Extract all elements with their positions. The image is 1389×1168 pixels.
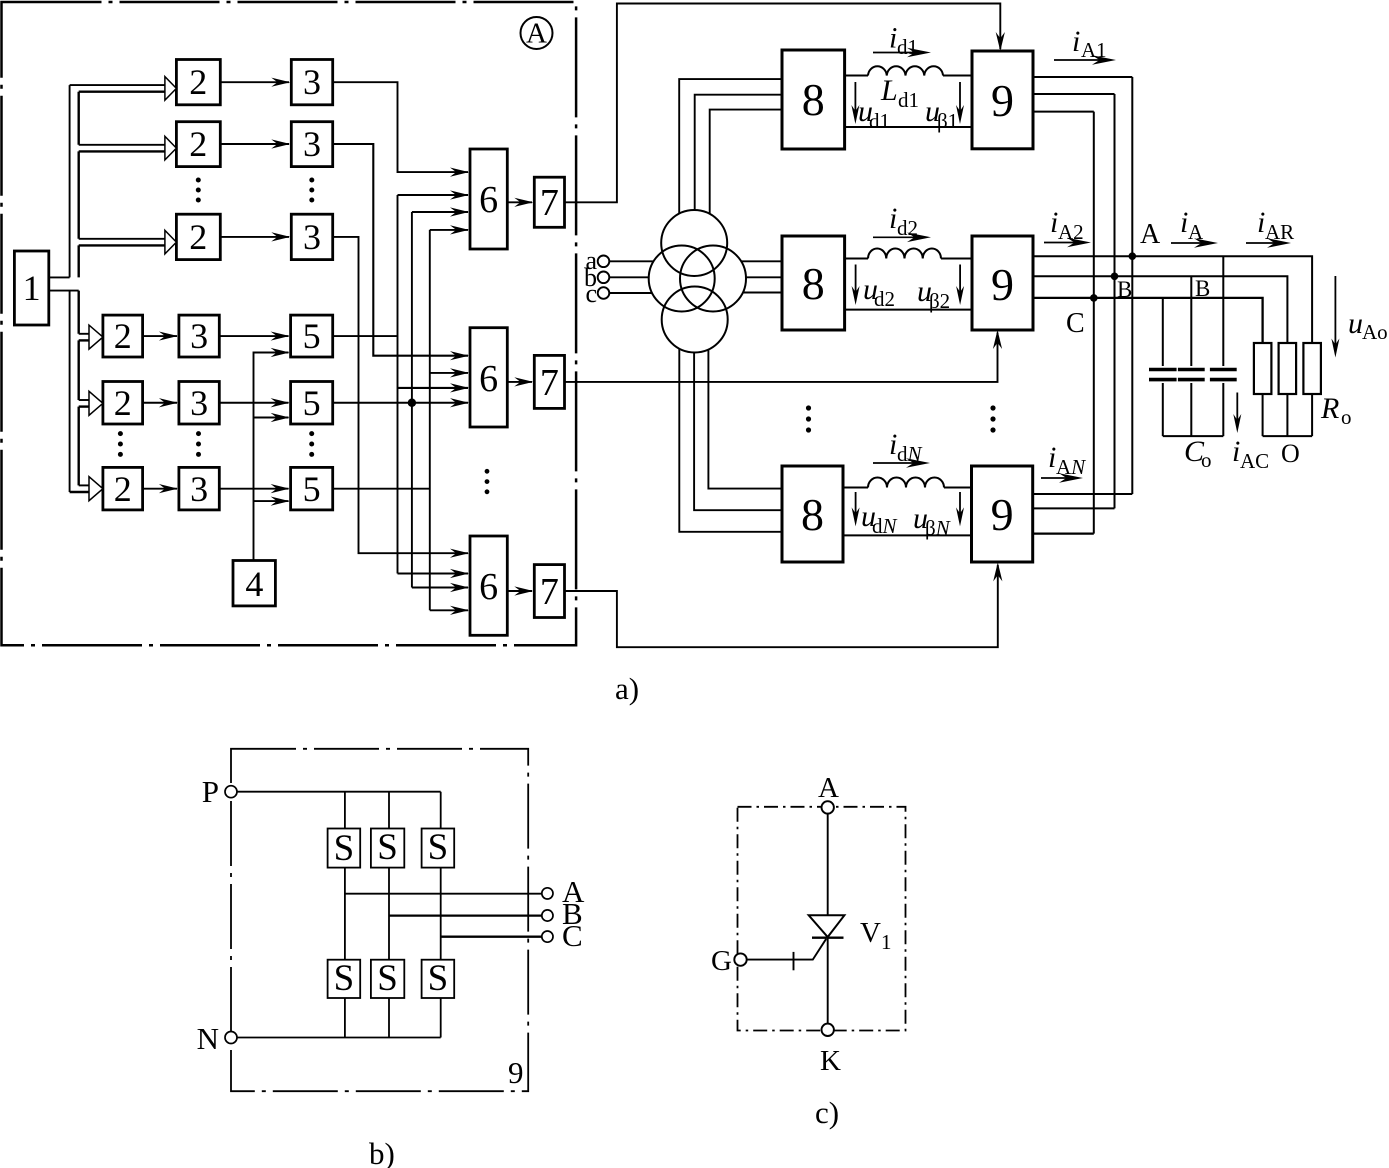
svg-text:β1: β1 <box>937 109 958 133</box>
svg-text:7: 7 <box>540 571 559 613</box>
svg-text:A: A <box>1188 220 1204 244</box>
svg-text:A: A <box>526 18 547 50</box>
svg-text:d1: d1 <box>897 35 918 59</box>
svg-text:B: B <box>1117 277 1132 302</box>
svg-text:AN: AN <box>1056 455 1086 479</box>
svg-text:3: 3 <box>303 124 321 164</box>
svg-text:5: 5 <box>303 383 321 423</box>
svg-text:A: A <box>1140 219 1161 250</box>
svg-text:d1: d1 <box>898 88 919 112</box>
svg-text:9: 9 <box>508 1055 524 1090</box>
svg-text:3: 3 <box>303 217 321 257</box>
svg-text:3: 3 <box>190 383 208 423</box>
svg-text:6: 6 <box>479 358 498 400</box>
svg-text:S: S <box>334 828 355 869</box>
svg-text:O: O <box>1281 439 1300 468</box>
svg-text:3: 3 <box>190 316 208 356</box>
svg-text:9: 9 <box>991 75 1014 126</box>
svg-text:o: o <box>1201 448 1212 472</box>
svg-text:7: 7 <box>540 362 559 404</box>
svg-text:dN: dN <box>897 442 923 466</box>
svg-text:dN: dN <box>872 514 898 538</box>
svg-text:8: 8 <box>802 74 825 125</box>
svg-text:AC: AC <box>1240 449 1269 473</box>
svg-text:c: c <box>585 279 597 308</box>
svg-text:2: 2 <box>189 124 207 164</box>
svg-text:β2: β2 <box>929 289 950 313</box>
svg-text:6: 6 <box>479 566 498 608</box>
svg-text:S: S <box>428 958 449 999</box>
svg-text:3: 3 <box>190 469 208 509</box>
svg-text:9: 9 <box>991 489 1014 540</box>
svg-text:V: V <box>860 917 881 949</box>
svg-text:o: o <box>1341 405 1352 429</box>
svg-text:2: 2 <box>189 62 207 102</box>
svg-text:d2: d2 <box>897 216 918 240</box>
svg-text:B: B <box>1195 276 1210 301</box>
svg-text:6: 6 <box>479 179 498 221</box>
svg-text:1: 1 <box>23 268 41 308</box>
svg-text:R: R <box>1320 392 1339 425</box>
svg-text:C: C <box>1066 308 1085 339</box>
svg-text:8: 8 <box>802 258 825 309</box>
svg-text:A1: A1 <box>1081 38 1107 62</box>
svg-text:Ao: Ao <box>1362 320 1388 344</box>
svg-text:2: 2 <box>114 469 132 509</box>
svg-text:S: S <box>334 958 355 999</box>
svg-text:a): a) <box>615 671 639 706</box>
svg-text:AR: AR <box>1265 220 1294 244</box>
svg-text:c): c) <box>815 1095 839 1130</box>
svg-text:d1: d1 <box>869 109 890 133</box>
svg-text:u: u <box>1348 307 1363 340</box>
svg-text:9: 9 <box>991 259 1014 310</box>
svg-text:S: S <box>377 958 398 999</box>
svg-text:P: P <box>202 774 219 809</box>
svg-text:i: i <box>1072 25 1080 58</box>
svg-text:L: L <box>880 74 898 107</box>
svg-text:βN: βN <box>925 516 951 540</box>
svg-text:K: K <box>820 1045 841 1077</box>
svg-text:1: 1 <box>881 930 892 954</box>
svg-text:4: 4 <box>245 564 263 604</box>
svg-text:8: 8 <box>801 489 824 540</box>
svg-text:S: S <box>377 827 398 868</box>
svg-text:7: 7 <box>540 182 559 224</box>
svg-text:2: 2 <box>189 217 207 257</box>
svg-text:3: 3 <box>303 62 321 102</box>
svg-text:2: 2 <box>114 383 132 423</box>
svg-text:C: C <box>562 918 583 953</box>
svg-text:S: S <box>428 827 449 868</box>
svg-text:5: 5 <box>303 316 321 356</box>
svg-text:A2: A2 <box>1058 220 1084 244</box>
svg-text:5: 5 <box>303 469 321 509</box>
svg-text:d2: d2 <box>874 287 895 311</box>
svg-text:G: G <box>711 945 732 977</box>
svg-text:A: A <box>818 772 839 804</box>
svg-text:b): b) <box>369 1136 395 1168</box>
svg-text:2: 2 <box>114 316 132 356</box>
svg-text:N: N <box>197 1021 219 1056</box>
